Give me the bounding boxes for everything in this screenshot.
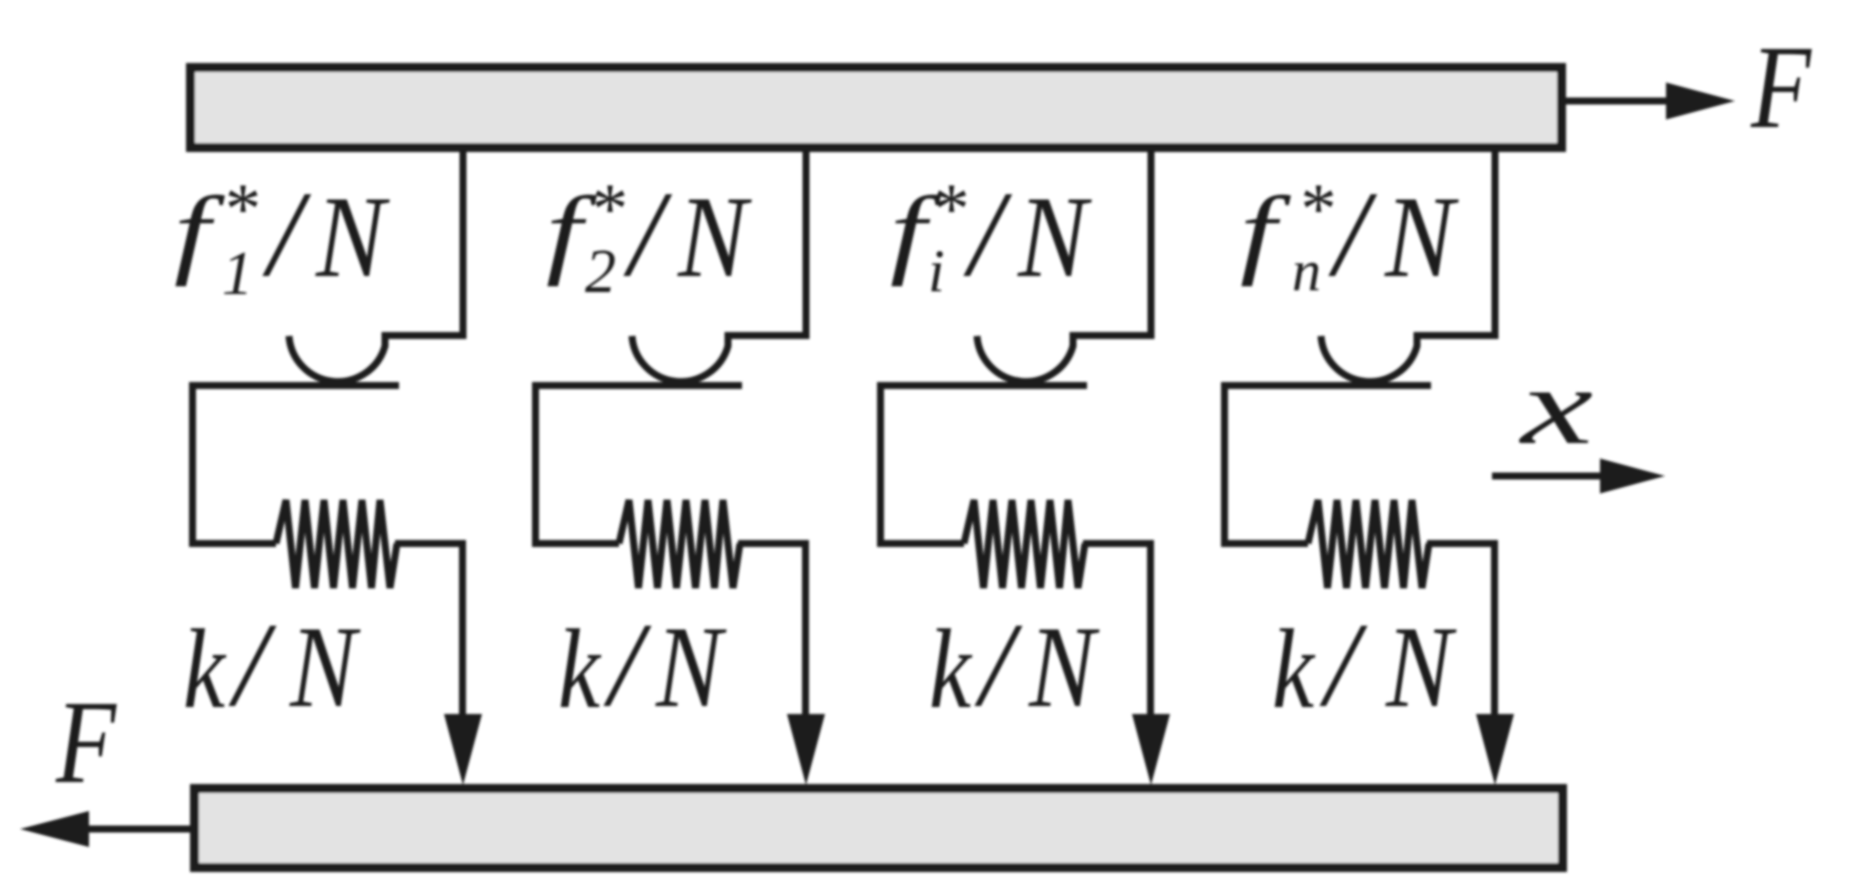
branch 1: right lead wire and down-arrow shaft — [395, 544, 463, 725]
svg-text:N: N — [655, 603, 727, 732]
top plate (upper gray bar) — [191, 68, 1562, 148]
branch 3: right lead wire and down-arrow shaft — [1083, 544, 1151, 725]
branch 3: drop wire from top plate — [1148, 150, 1155, 339]
svg-text:/: / — [1328, 167, 1378, 302]
bottom plate (lower gray bar) — [195, 789, 1563, 868]
label x — [1518, 345, 1593, 467]
svg-text:/: / — [623, 167, 673, 302]
branch 1: friction hook element f1*/N — [289, 336, 463, 382]
svg-text:N: N — [315, 173, 390, 302]
svg-text:/: / — [262, 167, 312, 302]
svg-text:k: k — [558, 607, 602, 732]
svg-text:N: N — [677, 173, 752, 302]
svg-text:N: N — [1028, 603, 1100, 732]
svg-text:/: / — [1319, 598, 1368, 731]
branch 2: contact surface line, slider left wire, left spring lead — [536, 386, 743, 544]
svg-text:k: k — [1272, 607, 1316, 732]
svg-text:/: / — [603, 598, 652, 731]
branch 1: drop wire from top plate — [460, 150, 467, 339]
branch 3: label fi*/N — [890, 167, 1092, 304]
svg-text:f: f — [1240, 176, 1292, 287]
svg-text:/: / — [974, 598, 1023, 731]
branch 1: spring k/N zigzag — [276, 500, 397, 588]
branch 2: label f2*/N — [546, 167, 752, 306]
branch 2: friction hook element f2*/N — [632, 336, 806, 382]
svg-text:N: N — [1017, 173, 1092, 302]
force arrow F (top right) — [1566, 83, 1735, 120]
branch 2: drop wire from top plate — [803, 150, 810, 339]
svg-text:k: k — [929, 607, 973, 732]
branch 4: drop wire from top plate — [1492, 150, 1499, 339]
branch 4: contact surface line, slider left wire, left spring lead — [1225, 386, 1432, 544]
svg-text:n: n — [1292, 238, 1321, 303]
branch 2: spring k/N zigzag — [619, 500, 740, 588]
branch 4: spring k/N zigzag — [1308, 500, 1429, 588]
svg-text:*: * — [1301, 169, 1337, 249]
branch 3: spring k/N zigzag — [964, 500, 1085, 588]
svg-text:1: 1 — [222, 240, 253, 308]
svg-text:*: * — [934, 169, 970, 249]
branch 4: friction hook element fn*/N — [1321, 336, 1495, 382]
svg-text:*: * — [225, 169, 261, 249]
svg-text:f: f — [174, 176, 226, 287]
branch 4: label fn*/N — [1240, 167, 1459, 303]
svg-text:/: / — [228, 598, 277, 731]
branch 4: label k/N — [1272, 598, 1457, 732]
svg-text:F: F — [55, 676, 117, 808]
svg-text:x: x — [1518, 345, 1593, 467]
branch 2: right lead wire and down-arrow shaft — [738, 544, 806, 725]
branch 3: down arrowhead onto bottom plate — [1132, 714, 1170, 785]
svg-text:N: N — [1384, 173, 1459, 302]
branch 3: friction hook element fi*/N — [977, 336, 1151, 382]
svg-text:F: F — [1750, 21, 1812, 153]
svg-text:/: / — [963, 167, 1013, 302]
displacement arrow x (middle right) — [1492, 459, 1665, 494]
label F (top right) — [1750, 21, 1812, 153]
branch 3: contact surface line, slider left wire, left spring lead — [881, 386, 1088, 544]
svg-text:N: N — [289, 603, 361, 732]
svg-text:*: * — [592, 169, 628, 249]
label F (bottom left) — [55, 676, 117, 808]
branch 4: right lead wire and down-arrow shaft — [1427, 544, 1495, 725]
svg-text:N: N — [1385, 603, 1457, 732]
branch 1: label f1*/N — [174, 167, 390, 308]
svg-text:k: k — [183, 607, 227, 732]
svg-text:i: i — [928, 238, 945, 304]
branch 2: label k/N — [558, 598, 727, 732]
branch 3: label k/N — [929, 598, 1100, 732]
branch 1: contact surface line, slider left wire, left spring lead — [193, 386, 400, 544]
svg-text:2: 2 — [585, 238, 616, 306]
branch 2: down arrowhead onto bottom plate — [787, 714, 825, 785]
reaction force arrow F (bottom left) — [20, 811, 192, 847]
branch 1: down arrowhead onto bottom plate — [444, 714, 482, 785]
branch 1: label k/N — [183, 598, 361, 732]
branch 4: down arrowhead onto bottom plate — [1476, 714, 1514, 785]
